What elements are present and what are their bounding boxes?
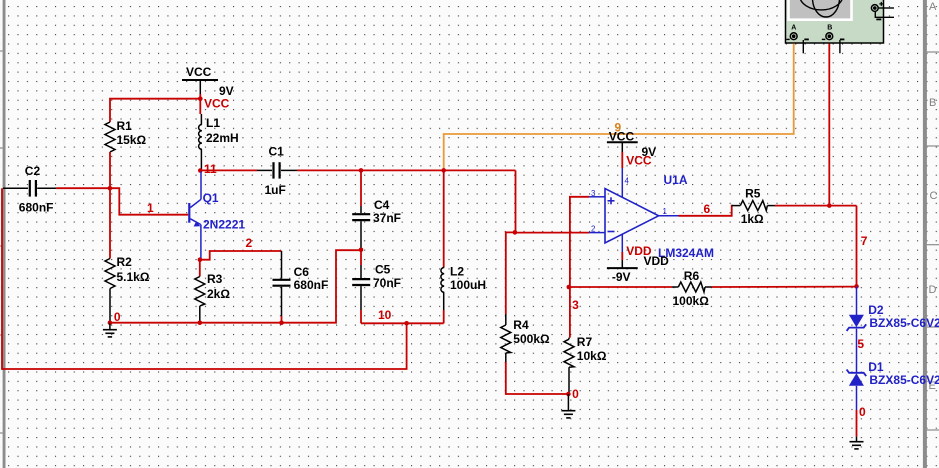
wire R6 to net 7 — [712, 286, 857, 288]
svg-text:2N2221: 2N2221 — [203, 218, 245, 232]
wire net 2 — [200, 251, 282, 260]
junction node at C2/R1/R2/base — [108, 186, 113, 191]
svg-text:C: C — [930, 190, 938, 202]
svg-text:100kΩ: 100kΩ — [673, 294, 710, 308]
wire R5 to node 7 — [775, 205, 857, 207]
wire R4 bottom to node 0 — [506, 362, 569, 394]
svg-text:L1: L1 — [206, 116, 220, 130]
svg-text:0: 0 — [572, 387, 579, 401]
wire scope B — [828, 44, 830, 206]
wire jog to R4 — [506, 232, 515, 314]
svg-text:1: 1 — [147, 201, 154, 215]
svg-text:1kΩ: 1kΩ — [741, 212, 764, 226]
wire base net 1 — [110, 188, 188, 215]
svg-text:D: D — [929, 284, 937, 296]
inductor L1 — [199, 114, 239, 169]
resistor R1 — [105, 119, 147, 152]
svg-text:R7: R7 — [577, 335, 593, 349]
svg-text:-9V: -9V — [612, 270, 631, 284]
resistor R4 — [501, 314, 550, 362]
svg-text:R5: R5 — [745, 187, 761, 201]
svg-text:680nF: 680nF — [294, 278, 329, 292]
junction minus input — [513, 230, 518, 235]
svg-text:7: 7 — [861, 234, 868, 248]
svg-text:500kΩ: 500kΩ — [513, 332, 550, 346]
svg-text:A: A — [791, 25, 796, 32]
svg-text:VCC: VCC — [204, 97, 230, 111]
ground (mid) — [561, 394, 575, 418]
svg-text:2: 2 — [246, 236, 253, 250]
pin 4 lead — [621, 168, 623, 197]
ground (right) — [850, 437, 864, 449]
wire net 7 vertical — [856, 206, 858, 287]
capacitor C5 — [352, 250, 401, 323]
pin 1 lead — [659, 215, 679, 217]
op-amp U1A — [589, 168, 714, 260]
pin 2 lead — [589, 232, 605, 234]
svg-text:VCC: VCC — [186, 65, 212, 79]
node 11 junction — [198, 168, 203, 173]
svg-text:2: 2 — [591, 225, 596, 234]
junction net 3 — [567, 285, 572, 290]
wire net 10 horizontal — [361, 322, 444, 324]
svg-text:3: 3 — [572, 298, 579, 312]
resistor R6 — [672, 269, 712, 308]
svg-text:R1: R1 — [117, 119, 133, 133]
wire VCC net — [110, 94, 200, 122]
svg-text:B: B — [929, 97, 936, 109]
svg-text:VDD: VDD — [644, 254, 670, 268]
inductor L2 — [441, 170, 486, 323]
capacitor C4 — [352, 170, 401, 248]
scope terminal T — [871, 5, 878, 12]
pin 11 lead — [621, 234, 623, 252]
wire left edge net 10 — [2, 188, 407, 369]
wire net 11/9 horizontal — [200, 169, 257, 171]
junction node 0 left — [108, 320, 113, 325]
VDD power symbol (op-amp) — [607, 244, 669, 284]
VCC power symbol (left) — [182, 65, 234, 111]
svg-text:15kΩ: 15kΩ — [117, 133, 147, 147]
svg-text:1uF: 1uF — [265, 183, 286, 197]
svg-text:VCC: VCC — [626, 154, 652, 168]
left sheet border bar — [0, 0, 6, 468]
ground (left) — [103, 323, 117, 337]
pin 3 lead — [589, 196, 605, 198]
svg-text:100uH: 100uH — [450, 278, 486, 292]
svg-text:A: A — [929, 1, 937, 13]
junction emitter node 2 — [198, 257, 203, 262]
svg-text:C6: C6 — [294, 265, 310, 279]
svg-text:R4: R4 — [513, 318, 529, 332]
resistor R5 — [732, 187, 775, 227]
wire output net 6 — [659, 215, 679, 217]
junction C4/C5 mid — [359, 248, 364, 253]
zener diode D2 — [847, 286, 939, 372]
junction VCC — [198, 96, 203, 101]
svg-text:C5: C5 — [375, 263, 391, 277]
VCC power symbol (op-amp) — [607, 130, 656, 169]
wire net 3 to R6 — [569, 286, 672, 288]
wire orange net 9 — [444, 44, 794, 171]
wire net 9 down to op-amp minus — [515, 170, 517, 232]
svg-text:4: 4 — [625, 177, 630, 186]
resistor R7 — [564, 335, 607, 394]
wire VCC to L1 — [199, 99, 201, 114]
wire R1 bottom — [109, 152, 111, 259]
svg-text:C2: C2 — [25, 164, 41, 178]
junction C6 bottom — [279, 320, 284, 325]
svg-text:0: 0 — [859, 405, 866, 419]
svg-text:Q1: Q1 — [203, 191, 219, 205]
svg-text:2kΩ: 2kΩ — [207, 287, 230, 301]
resistor R3 — [195, 260, 231, 323]
junction node 0 mid — [566, 392, 571, 397]
svg-text:3: 3 — [591, 189, 596, 198]
svg-text:22mH: 22mH — [206, 131, 239, 145]
wire plus input net 3 — [570, 197, 589, 338]
junction net 7 / diodes — [854, 284, 859, 289]
wire D1 to ground — [856, 410, 858, 437]
svg-text:BZX85-C6V2: BZX85-C6V2 — [869, 373, 939, 387]
capacitor C1 — [257, 145, 297, 198]
svg-text:10: 10 — [378, 308, 392, 322]
svg-text:6: 6 — [704, 202, 711, 216]
oscilloscope XSC1 — [786, 0, 895, 53]
capacitor C6 — [273, 251, 329, 323]
svg-text:37nF: 37nF — [373, 211, 401, 225]
svg-text:5: 5 — [857, 337, 864, 351]
junction at orange wire — [441, 168, 446, 173]
right sheet border bar with zone letters — [923, 0, 939, 468]
svg-text:11: 11 — [204, 162, 217, 176]
svg-text:R2: R2 — [117, 255, 133, 269]
junction net 10 — [404, 321, 409, 326]
junction at C4 column — [359, 168, 364, 173]
junction scope B node — [827, 203, 832, 208]
zener diode D1 — [847, 360, 939, 410]
wire to pin 2 — [515, 232, 589, 234]
svg-text:5.1kΩ: 5.1kΩ — [117, 270, 150, 284]
resistor R2 — [105, 255, 150, 323]
svg-text:R3: R3 — [207, 272, 223, 286]
capacitor C2 — [3, 164, 56, 215]
svg-text:BZX85-C6V2: BZX85-C6V2 — [869, 316, 939, 330]
wire C2 right to node — [56, 187, 110, 189]
svg-text:D2: D2 — [868, 303, 884, 317]
svg-text:10kΩ: 10kΩ — [577, 349, 607, 363]
svg-text:D1: D1 — [868, 360, 884, 374]
wire ground net horizontal — [110, 250, 361, 323]
svg-text:70nF: 70nF — [373, 276, 401, 290]
transistor Q1 — [188, 172, 245, 259]
svg-text:L2: L2 — [450, 265, 464, 279]
svg-text:1: 1 — [663, 207, 668, 216]
svg-text:R6: R6 — [684, 269, 700, 283]
svg-text:U1A: U1A — [664, 173, 688, 187]
junction R3 bottom — [198, 320, 203, 325]
svg-text:C4: C4 — [374, 198, 390, 212]
svg-text:C1: C1 — [269, 145, 285, 159]
svg-text:B: B — [827, 25, 832, 32]
svg-text:680nF: 680nF — [19, 201, 54, 215]
